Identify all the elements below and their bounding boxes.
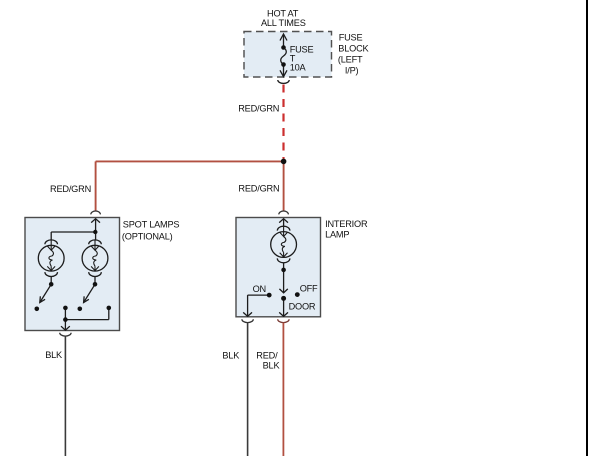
svg-text:RED/GRN: RED/GRN	[238, 104, 279, 114]
svg-text:(OPTIONAL): (OPTIONAL)	[122, 231, 173, 241]
svg-text:ALL TIMES: ALL TIMES	[261, 18, 306, 28]
svg-text:ON: ON	[253, 284, 266, 294]
svg-text:LAMP: LAMP	[325, 230, 349, 240]
svg-text:BLOCK: BLOCK	[338, 44, 369, 54]
svg-text:INTERIOR: INTERIOR	[325, 219, 368, 229]
svg-text:10A: 10A	[290, 63, 307, 73]
svg-text:HOT AT: HOT AT	[267, 8, 299, 18]
svg-text:RED/GRN: RED/GRN	[238, 184, 279, 194]
svg-text:SPOT LAMPS: SPOT LAMPS	[123, 219, 180, 229]
svg-text:BLK: BLK	[263, 361, 281, 371]
svg-text:BLK: BLK	[222, 351, 240, 361]
svg-text:RED/GRN: RED/GRN	[50, 184, 91, 194]
svg-text:RED/: RED/	[256, 351, 278, 361]
svg-text:I/P): I/P)	[345, 66, 359, 76]
svg-text:(LEFT: (LEFT	[338, 55, 363, 65]
svg-text:OFF: OFF	[300, 284, 318, 294]
svg-text:DOOR: DOOR	[289, 301, 316, 311]
svg-text:BLK: BLK	[45, 350, 63, 360]
svg-text:FUSE: FUSE	[339, 33, 363, 43]
